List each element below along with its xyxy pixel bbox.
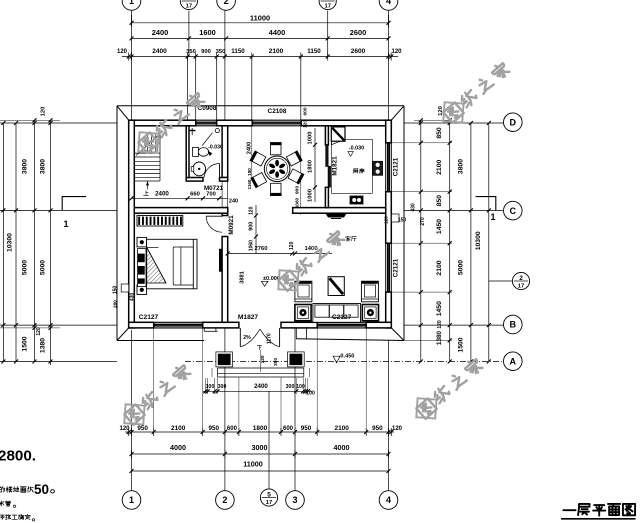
kitchen partition wall upper xyxy=(325,126,328,145)
bathroom toilet xyxy=(193,147,199,156)
bathroom shower partition diagonal xyxy=(202,133,212,146)
svg-text:120: 120 xyxy=(41,107,47,117)
svg-text:1: 1 xyxy=(490,212,495,222)
svg-text:660: 660 xyxy=(190,191,200,197)
bottom extension lines from windows and door xyxy=(153,328,155,432)
svg-text:1380: 1380 xyxy=(40,338,47,353)
porch column right xyxy=(288,352,305,367)
bathroom left wall xyxy=(186,126,189,178)
door M0921 bedroom leaf and swing xyxy=(206,215,222,217)
bathroom drain circle xyxy=(215,129,219,133)
bedroom bed headboard pillows xyxy=(138,249,146,287)
svg-text:C2108: C2108 xyxy=(268,108,287,115)
svg-text:10300: 10300 xyxy=(7,233,14,252)
svg-text:1150: 1150 xyxy=(307,48,321,55)
watermark bottom-left xyxy=(124,404,144,424)
bathroom bottom wall with door opening xyxy=(186,178,203,182)
axis circle 2 top xyxy=(217,0,236,10)
living room label xyxy=(346,236,351,241)
dining table round with six chairs xyxy=(264,156,290,182)
svg-text:2400: 2400 xyxy=(152,48,167,55)
svg-text:2100: 2100 xyxy=(436,260,443,275)
dining chair north-west xyxy=(251,151,267,167)
svg-text:2100: 2100 xyxy=(436,160,443,175)
wall C segment bedroom xyxy=(134,208,227,214)
svg-text:4: 4 xyxy=(386,495,391,505)
svg-text:1060: 1060 xyxy=(295,197,300,208)
living room sofa three seats xyxy=(313,304,361,323)
door M0721 bathroom leaf and swing xyxy=(219,164,221,178)
door M1827 entrance double leaves and swings xyxy=(239,328,241,347)
svg-text:600: 600 xyxy=(303,107,309,115)
svg-text:270: 270 xyxy=(420,217,426,226)
svg-text:430: 430 xyxy=(130,293,136,302)
svg-text:1000: 1000 xyxy=(308,189,314,202)
detail circle 2/17 right xyxy=(489,280,513,282)
svg-text:350: 350 xyxy=(273,358,279,366)
svg-text:-0.030: -0.030 xyxy=(208,145,223,151)
top dimension line row third xyxy=(122,56,398,58)
dining chair north xyxy=(270,143,282,154)
bedroom bed nightstand bottom xyxy=(137,285,147,295)
svg-text:D: D xyxy=(510,117,517,127)
wall axis1 left exterior xyxy=(129,120,135,328)
stair treads lower run xyxy=(134,152,160,154)
porch column left xyxy=(216,352,233,367)
svg-text:120: 120 xyxy=(391,49,402,55)
svg-text:2100: 2100 xyxy=(171,425,186,432)
svg-text:1450: 1450 xyxy=(436,219,443,234)
svg-text:120: 120 xyxy=(303,120,309,128)
kitchen room label xyxy=(353,169,358,173)
svg-text:150: 150 xyxy=(398,218,407,224)
svg-text:3: 3 xyxy=(292,495,297,505)
svg-text:B: B xyxy=(510,320,517,330)
svg-text:180: 180 xyxy=(247,168,252,176)
svg-text:C2121: C2121 xyxy=(393,157,400,176)
svg-text:350: 350 xyxy=(216,49,226,55)
svg-text:M0721: M0721 xyxy=(204,185,223,192)
axis circle 2 bottom xyxy=(216,491,235,510)
svg-text:3: 3 xyxy=(187,0,191,2)
svg-text:3881: 3881 xyxy=(240,271,246,283)
svg-text:1160: 1160 xyxy=(247,179,252,189)
axis line 1 (vertical grid) xyxy=(131,11,133,121)
svg-text:120: 120 xyxy=(437,320,443,329)
note text small line3 xyxy=(0,501,4,506)
dining chair north-east xyxy=(286,151,302,167)
axis circle C xyxy=(504,201,523,220)
bathroom wash basin xyxy=(193,162,206,176)
top dimension line row 2400/1600/4400/2600 xyxy=(132,37,389,39)
svg-text:1: 1 xyxy=(129,0,134,6)
porch centre dimension xyxy=(260,350,262,372)
svg-text:C2127: C2127 xyxy=(332,314,352,321)
svg-text:350: 350 xyxy=(186,49,196,55)
svg-text:700: 700 xyxy=(206,191,216,197)
wall axis4 middle segment xyxy=(386,192,392,244)
svg-text:17: 17 xyxy=(186,3,192,9)
svg-text:120: 120 xyxy=(119,426,130,432)
bedroom bed hatched quilt triangle xyxy=(147,248,166,284)
svg-text:1800: 1800 xyxy=(253,425,268,432)
svg-text:200: 200 xyxy=(113,300,118,308)
axis circle 4 top xyxy=(379,0,398,10)
window C2121 kitchen in wall axis4 xyxy=(385,143,387,192)
svg-text:4400: 4400 xyxy=(269,28,285,37)
svg-text:1500: 1500 xyxy=(458,337,465,352)
svg-text:900: 900 xyxy=(249,222,255,231)
svg-text:150: 150 xyxy=(113,286,119,295)
window C2127 bedroom in wall B xyxy=(154,321,203,323)
svg-text:5: 5 xyxy=(267,491,271,498)
axis line 3 (vertical grid) xyxy=(294,328,296,491)
kitchen sink block bottom xyxy=(350,196,363,204)
bottom dimension row 4000/3000/4000 xyxy=(132,453,389,455)
svg-text:11000: 11000 xyxy=(243,460,263,469)
living room armchair right xyxy=(361,281,378,302)
svg-text:3000: 3000 xyxy=(252,443,268,452)
axis line 2 (vertical grid) xyxy=(224,11,226,121)
section mark 1 right xyxy=(476,197,496,211)
door M1821 kitchen sliding leaves xyxy=(326,145,329,166)
svg-text:5000: 5000 xyxy=(22,260,29,275)
axis circle B xyxy=(504,315,523,334)
svg-text:2600: 2600 xyxy=(350,28,366,37)
svg-text:300: 300 xyxy=(218,384,227,390)
svg-text:C: C xyxy=(510,206,517,216)
svg-text:900: 900 xyxy=(295,186,301,194)
svg-text:4000: 4000 xyxy=(170,443,186,452)
dining chair south-east xyxy=(288,168,304,184)
kitchen partition wall lower xyxy=(325,187,328,207)
svg-text:17: 17 xyxy=(266,500,272,506)
bedroom bed body xyxy=(147,239,197,288)
porch side stub left xyxy=(203,328,205,331)
porch steps xyxy=(218,367,304,369)
svg-text:1: 1 xyxy=(129,495,134,505)
bedroom wardrobe with sliding stripes xyxy=(137,216,183,227)
stair side rail xyxy=(159,134,161,182)
svg-text:3800: 3800 xyxy=(22,159,29,174)
living room TV on wall C xyxy=(326,213,347,217)
svg-text:600: 600 xyxy=(227,426,238,432)
porch step dimension line xyxy=(203,390,312,392)
watermark bottom-right xyxy=(416,398,436,418)
svg-text:900: 900 xyxy=(201,49,211,55)
watermark top-left xyxy=(138,132,158,152)
svg-text:240: 240 xyxy=(229,199,238,205)
svg-text:2400: 2400 xyxy=(152,28,168,37)
stair treads upper run xyxy=(147,134,149,153)
cased opening in axis2 wall (hall) xyxy=(221,181,223,208)
right dimension column lines xyxy=(420,120,422,362)
svg-text:C2121: C2121 xyxy=(393,258,400,277)
bedroom bed nightstand top xyxy=(137,237,147,247)
svg-text:600: 600 xyxy=(283,426,294,432)
bathroom shower tap symbol xyxy=(190,130,196,132)
svg-text:120: 120 xyxy=(392,426,403,432)
left horizontal connectors xyxy=(0,119,60,121)
svg-text:300: 300 xyxy=(286,384,295,390)
svg-text:120: 120 xyxy=(117,49,128,55)
stair hall dimension line 2400/660/700 xyxy=(132,197,228,199)
svg-text:3800: 3800 xyxy=(458,159,465,174)
porch down label xyxy=(257,346,262,350)
svg-text:M0921: M0921 xyxy=(228,215,235,235)
axis circle 3/17 top xyxy=(180,0,197,10)
axis line B (horizontal grid) xyxy=(0,324,117,326)
svg-text:2400: 2400 xyxy=(155,190,169,197)
svg-text:5000: 5000 xyxy=(40,260,47,275)
svg-text:2: 2 xyxy=(224,0,229,6)
axis circle 4 bottom xyxy=(379,491,398,510)
svg-text:950: 950 xyxy=(372,425,383,432)
svg-text:1000: 1000 xyxy=(308,132,314,145)
svg-text:17: 17 xyxy=(324,3,330,9)
hall dimension vertical 120/900 xyxy=(255,205,257,254)
svg-text:3800: 3800 xyxy=(40,159,47,174)
svg-text:50: 50 xyxy=(34,482,49,497)
living room coffee table with diagonal xyxy=(328,277,344,296)
svg-text:120: 120 xyxy=(289,241,295,250)
svg-text:-0.450: -0.450 xyxy=(339,353,355,359)
porch side stub right xyxy=(295,328,297,339)
note text small line4 xyxy=(0,515,4,520)
axis line 4 (vertical grid) xyxy=(388,11,390,121)
svg-text:1170: 1170 xyxy=(267,333,273,344)
axis circle A xyxy=(504,352,523,371)
svg-text:1450: 1450 xyxy=(436,301,443,316)
stair up arrow xyxy=(147,181,149,190)
wall C segment kitchen-living xyxy=(293,208,386,214)
sub-axis line above stair wall xyxy=(188,11,190,58)
wall axis4 lower segment xyxy=(386,292,392,328)
svg-text:A: A xyxy=(510,356,517,366)
wall B segment left corner xyxy=(129,322,154,328)
eave mitre corners xyxy=(117,106,129,120)
svg-text:100: 100 xyxy=(296,384,305,390)
svg-text:120: 120 xyxy=(384,216,389,224)
stair text 上 2400 xyxy=(143,191,148,196)
top dimension line 11000 xyxy=(132,22,389,24)
dining chair south-west xyxy=(251,172,267,188)
svg-text:950: 950 xyxy=(137,425,148,432)
svg-text:M1827: M1827 xyxy=(238,314,258,321)
svg-text:120: 120 xyxy=(260,355,266,363)
eave outline around building xyxy=(117,105,404,107)
dining chair south xyxy=(270,183,282,194)
svg-text:100: 100 xyxy=(306,390,315,396)
axis line 5/17 (porch centre) xyxy=(268,391,270,488)
axis circle D xyxy=(504,113,523,132)
svg-text:2100: 2100 xyxy=(334,425,349,432)
svg-text:950: 950 xyxy=(301,425,312,432)
bottom dimension row 950/2100 etc xyxy=(125,431,394,433)
axis line A (horizontal grid, dash-dot through terrace) xyxy=(0,361,117,363)
svg-text:1500: 1500 xyxy=(22,336,29,351)
svg-text:2600: 2600 xyxy=(351,48,366,55)
window C2127 living in wall B xyxy=(317,321,366,323)
kitchen inner outline xyxy=(332,139,373,193)
svg-text:100: 100 xyxy=(206,384,215,390)
right horizontal extension lines xyxy=(391,142,452,144)
left dimension column lines xyxy=(2,123,4,362)
living room end table left with plant xyxy=(295,305,311,321)
svg-text:M1821: M1821 xyxy=(332,156,339,176)
svg-text:4000: 4000 xyxy=(334,443,350,452)
svg-text:4: 4 xyxy=(386,0,391,6)
axis line D (horizontal grid) xyxy=(0,122,117,124)
svg-text:2400: 2400 xyxy=(247,142,253,154)
interior wall axis2 lower below bedroom door xyxy=(222,237,228,323)
svg-text:1800: 1800 xyxy=(308,160,314,173)
svg-text:1600: 1600 xyxy=(199,28,215,37)
svg-text:1: 1 xyxy=(63,219,68,229)
svg-text:11000: 11000 xyxy=(250,13,270,22)
living room armchair left xyxy=(295,281,312,302)
top extension lines xyxy=(187,57,189,121)
kitchen corner refrigerator xyxy=(331,127,345,141)
svg-text:2800.: 2800. xyxy=(0,448,36,465)
window C2121 living in wall axis4 xyxy=(385,243,387,292)
wall B segment right corner xyxy=(366,322,391,328)
left wall flue box and small dims xyxy=(121,284,129,292)
wall D segment left xyxy=(129,120,196,126)
note text 50 xyxy=(0,487,5,492)
wall B segment left-of-door xyxy=(203,322,239,328)
svg-text:2760: 2760 xyxy=(255,246,268,252)
svg-text:17: 17 xyxy=(518,283,524,289)
axis circle 3 bottom xyxy=(286,491,305,510)
wall B segment right-of-door xyxy=(281,322,317,328)
bedroom wall shelf strip xyxy=(219,249,222,272)
living room end table right with plant xyxy=(362,305,378,321)
svg-text:1150: 1150 xyxy=(231,48,245,55)
sub-axis line above kitchen wall xyxy=(327,11,329,58)
section mark 1 left xyxy=(62,197,86,211)
watermark centre xyxy=(278,270,298,290)
watermark top-right xyxy=(443,102,463,122)
svg-text:-0.030: -0.030 xyxy=(349,145,364,151)
svg-text:1380: 1380 xyxy=(436,330,443,345)
svg-text:10300: 10300 xyxy=(475,231,482,250)
wall D segment right xyxy=(301,120,391,126)
svg-text:120: 120 xyxy=(249,206,255,215)
axis circle 1 top xyxy=(122,0,141,10)
svg-text:430: 430 xyxy=(411,203,417,212)
window C2108 in wall D xyxy=(252,119,301,121)
svg-text:2100: 2100 xyxy=(269,48,284,55)
svg-text:2: 2 xyxy=(519,275,523,282)
wall D segment middle xyxy=(217,120,253,126)
kitchen stove with burners xyxy=(373,161,383,175)
hall dimension horizontal 2760/120/1400 xyxy=(228,253,332,255)
svg-text:950: 950 xyxy=(209,425,220,432)
title 一层平面图 xyxy=(563,509,575,511)
svg-text:2: 2 xyxy=(222,495,227,505)
dining vertical dimension 1000/1800/1000 xyxy=(314,128,316,202)
svg-text:C2127: C2127 xyxy=(139,314,159,321)
svg-text:5000: 5000 xyxy=(458,260,465,275)
right wall flue box and small dims xyxy=(392,214,400,222)
svg-text:850: 850 xyxy=(436,195,443,207)
axis line C (horizontal grid) xyxy=(0,209,117,211)
stair break line xyxy=(136,133,162,156)
svg-text:120: 120 xyxy=(36,327,42,336)
svg-text:2%: 2% xyxy=(243,335,251,341)
axis circle 1 bottom xyxy=(122,491,141,510)
svg-text:4: 4 xyxy=(326,0,330,2)
bottom dimension line 11000 xyxy=(132,470,389,472)
interior wall axis2 middle xyxy=(222,208,228,216)
axis circle 5/17 bottom xyxy=(260,489,277,506)
svg-text:2400: 2400 xyxy=(254,383,268,390)
axis circle 4/17 top xyxy=(319,0,336,10)
wall axis4 right exterior upper xyxy=(386,120,392,143)
svg-text:850: 850 xyxy=(436,127,443,139)
interior wall axis2 upper (bathroom side) xyxy=(222,126,228,178)
window C0908 in wall D xyxy=(196,119,217,121)
